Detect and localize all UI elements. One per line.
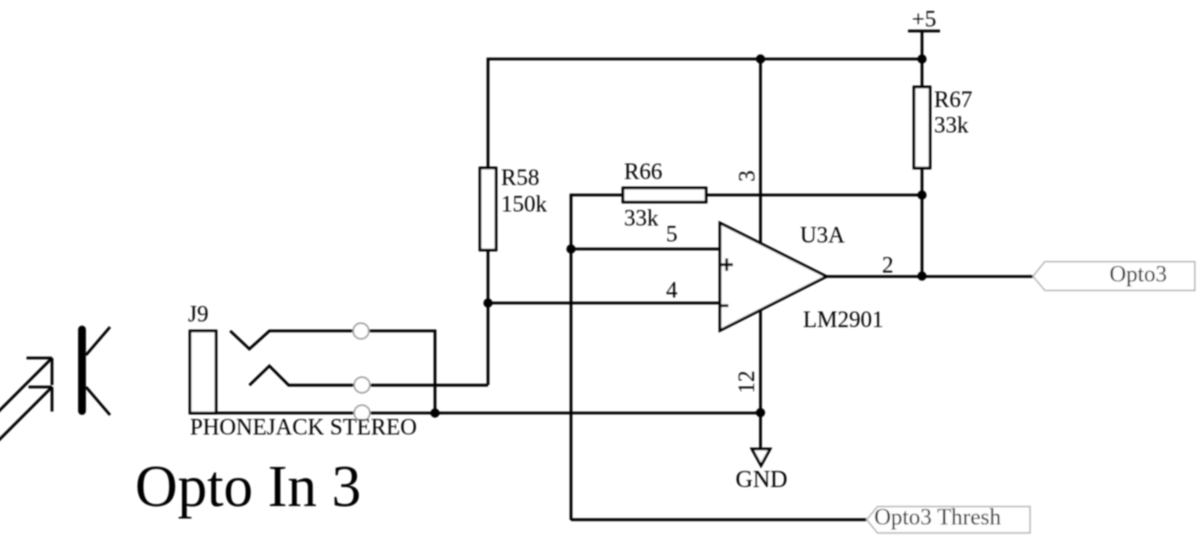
net label Opto3 flag [1033, 262, 1195, 291]
junction +5 / R67 [917, 54, 926, 63]
svg-text:33k: 33k [624, 206, 659, 231]
junction pin5 / thresh vertical [566, 244, 575, 253]
jack sleeve open circle [354, 405, 370, 421]
wire pin 3 (V+) [759, 59, 762, 243]
wire +5 rail (top horizontal) [488, 59, 922, 168]
svg-text:J9: J9 [188, 302, 208, 327]
svg-text:12: 12 [734, 371, 759, 394]
svg-text:PHONEJACK STEREO: PHONEJACK STEREO [190, 415, 417, 440]
light arrow 1 head [27, 358, 53, 385]
label R67 value [934, 87, 972, 138]
svg-text:4: 4 [666, 278, 678, 303]
svg-text:R58: R58 [501, 165, 539, 190]
ground [736, 449, 788, 493]
svg-text:+5: +5 [912, 7, 936, 32]
resistor R66 [623, 188, 706, 202]
jack sleeve wire [190, 412, 761, 415]
wire R67 top [921, 59, 924, 87]
wire R66 right to R67 node [706, 194, 922, 197]
wire pin 12 (V-) [759, 310, 762, 449]
wire pin 5 (non-inverting input) [571, 248, 720, 251]
junction R66 / R67 [917, 190, 926, 199]
svg-text:Opto3: Opto3 [1110, 262, 1168, 287]
jack ring open circle [354, 377, 370, 393]
svg-text:Opto3 Thresh: Opto3 Thresh [874, 505, 1001, 530]
svg-text:GND: GND [736, 467, 788, 493]
junction top rail / pin 3 [756, 54, 765, 63]
label R58 value [501, 165, 548, 217]
jack ring contact [249, 366, 488, 385]
svg-text:2: 2 [882, 253, 894, 278]
svg-text:3: 3 [735, 170, 760, 182]
power +5 symbol [908, 7, 940, 60]
svg-text:33k: 33k [934, 113, 969, 138]
svg-text:5: 5 [666, 222, 678, 247]
op-amp minus input mark [721, 304, 729, 307]
junction output / R67 [917, 271, 926, 280]
light arrow 2 head [29, 387, 53, 412]
junction R58 / pin 4 wire [483, 298, 492, 307]
op-amp U3A [720, 223, 827, 331]
wire R66 left [571, 195, 623, 520]
light arrow 2 shaft [0, 387, 52, 442]
op-amp plus input mark [721, 258, 734, 271]
light arrow 1 shaft [0, 358, 52, 413]
wire Opto3 Thresh horizontal [571, 518, 867, 521]
wire R67 bottom to output [921, 168, 924, 276]
optocoupler phototransistor base bar [78, 330, 86, 412]
wire R58 bottom to ring contact [487, 250, 490, 385]
jack tip open circle [353, 323, 369, 339]
wire pin 4 (inverting input) [488, 302, 720, 305]
resistor R67 [914, 87, 930, 168]
svg-text:U3A: U3A [800, 223, 845, 248]
svg-text:Opto In 3: Opto In 3 [135, 453, 361, 519]
wire output pin 2 [827, 275, 1034, 278]
net label Opto3 Thresh flag [867, 505, 1030, 533]
label R66 value [624, 159, 662, 231]
svg-text:R67: R67 [934, 87, 972, 112]
svg-text:R66: R66 [624, 159, 662, 184]
junction tip / sleeve [430, 408, 439, 417]
svg-text:LM2901: LM2901 [803, 307, 884, 332]
svg-text:150k: 150k [501, 192, 548, 217]
junction sleeve / pin 12 / ground [756, 408, 765, 417]
optocoupler collector lead [86, 327, 110, 355]
optocoupler emitter lead [86, 387, 110, 415]
jack tip contact [230, 331, 435, 413]
connector J9 jack body [190, 331, 216, 413]
resistor R58 [480, 168, 496, 250]
